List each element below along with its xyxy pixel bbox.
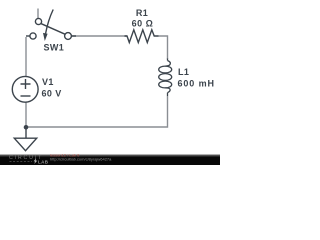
wire top from switch to resistor xyxy=(72,35,128,37)
switch lever xyxy=(41,24,65,35)
svg-text:600 mH: 600 mH xyxy=(178,79,215,89)
svg-text:http://circuitlab.com/c/8yrajw: http://circuitlab.com/c/8yrajw6427a xyxy=(50,156,112,161)
svg-text:SW1: SW1 xyxy=(44,43,65,53)
wire switch top stub xyxy=(37,9,39,19)
minus sign xyxy=(21,95,31,97)
wire left vertical xyxy=(25,37,27,77)
wire right vertical upper xyxy=(159,36,168,59)
svg-text:60 V: 60 V xyxy=(42,89,62,99)
voltage source V1 xyxy=(12,76,38,102)
svg-text:R1: R1 xyxy=(136,8,148,18)
plus sign xyxy=(21,79,31,89)
svg-text:60 Ω: 60 Ω xyxy=(132,19,154,29)
switch left terminal circle xyxy=(30,33,36,39)
wire right vertical lower and bottom xyxy=(26,96,168,127)
svg-text:L1: L1 xyxy=(178,67,189,77)
switch SW1 xyxy=(26,10,76,40)
svg-text:V1: V1 xyxy=(42,77,54,87)
switch left lead xyxy=(26,35,30,37)
switch actuation arrowhead xyxy=(43,33,48,41)
ground xyxy=(14,127,36,151)
logo bolt xyxy=(34,158,38,164)
resistor R1 xyxy=(125,30,159,43)
wire V1 bottom to junction xyxy=(25,103,27,128)
inductor L1 xyxy=(159,59,172,97)
switch right lead xyxy=(71,35,76,37)
switch top terminal circle xyxy=(35,18,41,24)
junction node xyxy=(24,125,29,130)
switch actuation arrow tail xyxy=(46,10,54,34)
svg-text:LAB: LAB xyxy=(38,159,49,164)
switch right terminal circle xyxy=(65,33,72,40)
